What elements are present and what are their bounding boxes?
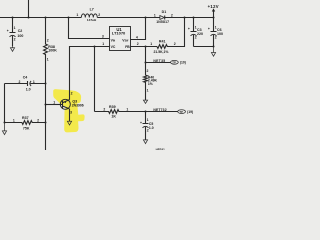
node junction Vsw-riser/bus — [145, 17, 147, 19]
svg-text:(10): (10) — [180, 61, 186, 65]
svg-text:2: 2 — [103, 107, 105, 111]
svg-text:1N5817: 1N5817 — [156, 20, 169, 24]
svg-text:100: 100 — [17, 34, 23, 38]
ground arrow under R37 corner — [2, 123, 6, 135]
node junction VC/R39 drop — [94, 46, 96, 48]
svg-text:1: 1 — [14, 26, 16, 30]
node junction FB/R40 — [145, 46, 147, 48]
wire main top bus — [0, 17, 214, 19]
node junction C2/bus — [12, 17, 14, 19]
node junction base/vertical — [45, 104, 47, 106]
ground arrow under C2 — [10, 46, 14, 51]
wire Q3 base — [46, 104, 61, 106]
svg-text:1: 1 — [126, 107, 128, 111]
svg-text:(19): (19) — [187, 110, 193, 114]
svg-text:C4: C4 — [23, 76, 28, 80]
node junction rail/C6 — [213, 46, 215, 48]
resistor R41 — [150, 18, 184, 55]
node junction R37/base line — [45, 122, 47, 124]
resistor R38 — [44, 18, 58, 84]
svg-text:NET732: NET732 — [153, 108, 166, 112]
svg-text:3: 3 — [102, 35, 104, 39]
node junction Vin-drop/bus — [68, 17, 70, 19]
resistor R40 — [144, 69, 158, 100]
svg-text:2: 2 — [174, 42, 176, 46]
svg-text:1: 1 — [102, 42, 104, 46]
svg-text:1: 1 — [147, 88, 149, 92]
svg-text:FB: FB — [125, 45, 130, 49]
wire FB to R41 — [131, 46, 158, 48]
wire VC feed — [70, 47, 110, 100]
svg-text:2: 2 — [37, 118, 39, 122]
resistor R39 — [95, 105, 146, 119]
svg-text:R39: R39 — [109, 105, 116, 109]
svg-text:1: 1 — [33, 80, 35, 84]
svg-text:1: 1 — [13, 118, 15, 122]
node NET35 junction — [145, 62, 147, 64]
svg-text:1: 1 — [150, 42, 152, 46]
node junction R41-riser/bus — [184, 17, 186, 19]
net NET732 label with TP flag — [146, 108, 194, 114]
node junction C6/+12V/bus — [213, 17, 215, 19]
IC U1 LT1070 — [110, 27, 131, 51]
resistor R37 — [5, 116, 46, 131]
svg-text:+: + — [7, 29, 9, 33]
svg-text:HP741: HP741 — [156, 147, 166, 150]
capacitor C3 — [188, 18, 203, 47]
ground arrow under R40 — [143, 100, 147, 103]
svg-text:4: 4 — [136, 35, 138, 39]
wire Q3 collector down — [69, 109, 71, 122]
node junction R37/C4 drop — [4, 122, 6, 124]
svg-text:TP: TP — [172, 61, 176, 65]
svg-text:100: 100 — [217, 32, 223, 36]
svg-text:R37: R37 — [22, 116, 29, 120]
svg-text:NET35: NET35 — [153, 59, 165, 63]
ground arrow under Q3 — [67, 121, 71, 125]
capacitor C6 — [208, 18, 223, 47]
svg-text:1.0: 1.0 — [26, 87, 31, 91]
svg-text:LT1070: LT1070 — [112, 31, 126, 36]
power +12V — [208, 4, 219, 18]
inductor L7 — [76, 8, 100, 22]
svg-text:21.5K,1%: 21.5K,1% — [154, 50, 169, 54]
node junction C4/R38 line — [45, 83, 47, 85]
svg-text:2: 2 — [19, 80, 21, 84]
svg-text:147uH: 147uH — [87, 18, 97, 22]
node junction C3/bus — [193, 17, 195, 19]
svg-text:220: 220 — [197, 32, 203, 36]
capacitor C5 — [140, 112, 154, 141]
svg-text:1K: 1K — [111, 115, 116, 119]
svg-text:+12V: +12V — [208, 4, 219, 9]
ground arrow under C5 — [143, 140, 147, 144]
wire Vsw to bus — [131, 18, 146, 40]
svg-text:3: 3 — [70, 111, 72, 115]
svg-text:L7: L7 — [90, 8, 94, 12]
capacitor C2 — [7, 18, 24, 47]
svg-text:2: 2 — [147, 69, 149, 73]
svg-text:1: 1 — [47, 58, 49, 62]
wire top stub — [28, 0, 30, 18]
wire Vin drop and feed — [69, 18, 110, 39]
svg-text:100K: 100K — [48, 49, 57, 53]
svg-text:2: 2 — [195, 36, 197, 40]
transistor Q3 2N3906 — [53, 92, 83, 115]
wire base line to bottom edge — [45, 84, 47, 151]
net NET35 label with TP flag — [146, 59, 186, 65]
svg-text:+: + — [208, 27, 210, 31]
svg-text:2: 2 — [14, 37, 16, 41]
highlighter mark over Q3 — [53, 89, 84, 132]
node junction R38/bus — [45, 17, 47, 19]
wire FB down through NET35 to R40 — [145, 47, 147, 76]
svg-text:R41: R41 — [159, 40, 166, 44]
wire C4 left drop — [4, 84, 6, 123]
svg-text:+: + — [140, 121, 142, 125]
diode D1 1N5817 — [154, 10, 173, 24]
svg-text:1.0: 1.0 — [149, 126, 154, 130]
svg-text:2: 2 — [71, 92, 73, 96]
svg-text:2: 2 — [98, 13, 100, 17]
svg-text:1: 1 — [76, 13, 78, 17]
wire cap ground rail — [194, 46, 214, 48]
svg-text:2: 2 — [147, 129, 149, 133]
node NET732 junction — [145, 111, 147, 113]
svg-text:75K: 75K — [23, 127, 30, 131]
ground arrow under rail — [211, 47, 215, 57]
svg-text:2: 2 — [137, 42, 139, 46]
capacitor C4 — [5, 76, 46, 92]
svg-text:C2: C2 — [18, 29, 23, 33]
svg-text:2: 2 — [215, 36, 217, 40]
svg-text:+: + — [188, 27, 190, 31]
svg-text:2N3906: 2N3906 — [72, 104, 84, 108]
node junction stub/bus — [28, 17, 30, 19]
svg-text:1: 1 — [154, 13, 156, 17]
svg-text:2: 2 — [47, 38, 49, 42]
svg-text:VC: VC — [111, 45, 116, 49]
svg-text:1%: 1% — [148, 82, 153, 86]
svg-text:D1: D1 — [162, 10, 167, 14]
svg-text:2: 2 — [171, 13, 173, 17]
svg-text:TP: TP — [180, 110, 184, 114]
wire VC to R39 drop — [94, 47, 96, 112]
